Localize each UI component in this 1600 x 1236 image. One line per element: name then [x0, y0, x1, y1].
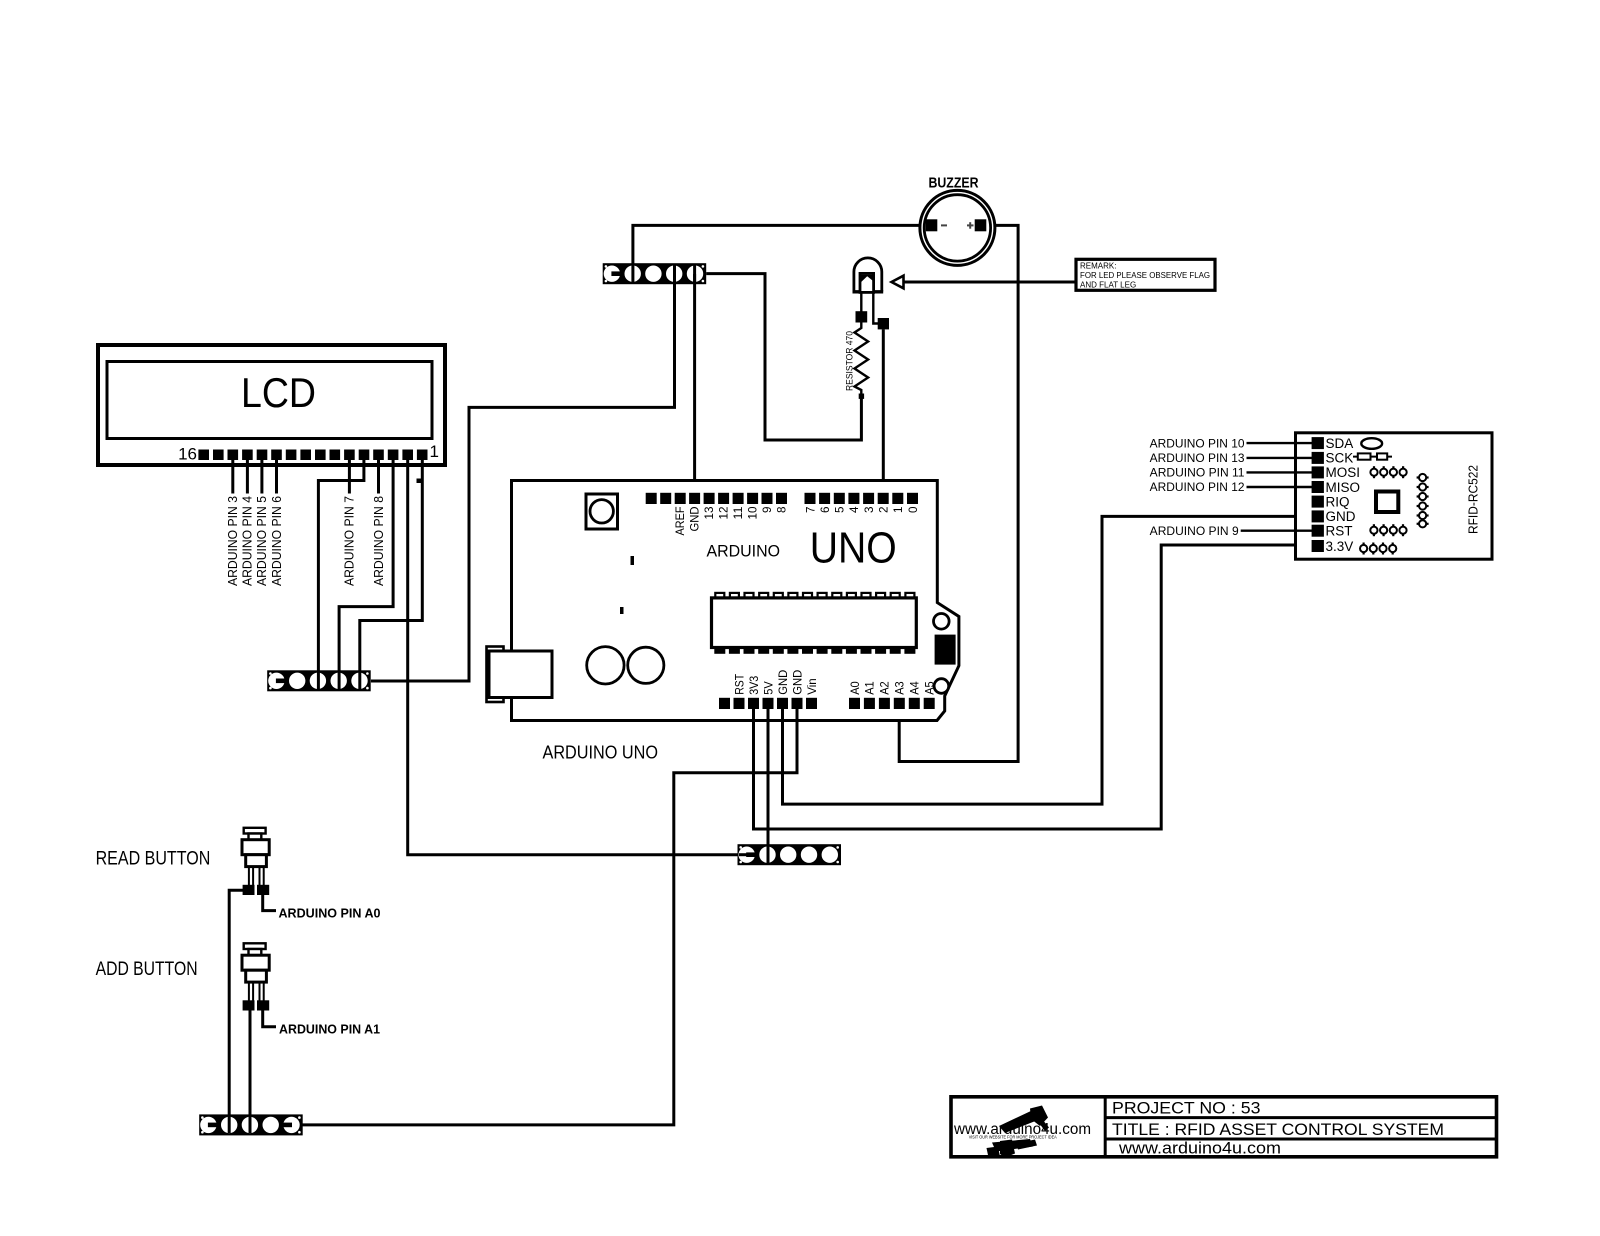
svg-text:A0: A0 — [850, 681, 862, 695]
wire READ button left leg to button header hole2 — [229, 890, 243, 1126]
label RESISTOR 470 (vertical) — [845, 331, 855, 391]
label ADD BUTTON — [96, 959, 198, 980]
connector J3 power header (5-hole header) — [738, 844, 842, 865]
title text PROJECT NO — [1112, 1100, 1261, 1118]
label Arduino power pin GND (vertical) — [778, 670, 790, 695]
label ARDUINO PIN A1 — [279, 1023, 380, 1037]
svg-text:Vin: Vin — [807, 678, 819, 695]
RFID caps column right — [1417, 474, 1429, 528]
ARDUINO text on board — [707, 542, 781, 561]
svg-text:ARDUINO PIN 5: ARDUINO PIN 5 — [255, 496, 269, 586]
label ARDUINO PIN 4 (vertical) — [241, 496, 255, 586]
LCD pin pads row pins 16..1 — [198, 450, 427, 461]
RFID pin pad 3.3V — [1312, 540, 1324, 552]
buzzer plus sign — [967, 222, 974, 229]
connector J1 LCD power header (5-hole header) — [267, 670, 371, 691]
svg-text:GND: GND — [1326, 509, 1356, 524]
LED cathode leg — [860, 292, 862, 312]
label ARDUINO PIN 3 (vertical) — [226, 496, 240, 586]
label ARDUINO PIN 5 (vertical) — [255, 496, 269, 586]
wire READ button right leg to label A0 — [263, 895, 276, 911]
LCD pin 16 number label — [178, 445, 197, 464]
wire segments through J4 holes — [229, 1116, 250, 1133]
logo tiny tagline — [969, 1135, 1057, 1140]
label ARDUINO PIN 7 (vertical) — [343, 496, 357, 586]
wire leader ARDUINO PIN 11 to RFID pin — [1247, 471, 1314, 473]
svg-text:10: 10 — [747, 507, 759, 520]
svg-text:5V: 5V — [763, 681, 775, 695]
svg-text:16: 16 — [178, 445, 197, 464]
Arduino analog header pads A0..A5 — [849, 698, 935, 709]
svg-text:A5: A5 — [925, 681, 937, 695]
wire LCD pin3 to LCD header hole4 — [339, 459, 393, 681]
RFID pin label RST — [1326, 524, 1353, 539]
board mount hole top right — [934, 614, 950, 630]
Arduino top header pads 7..0 — [805, 493, 919, 504]
RFID fuse pair — [1353, 453, 1392, 459]
title text www.arduino4u.com — [1118, 1138, 1281, 1157]
label ARDUINO PIN 9 — [1150, 526, 1239, 538]
svg-text:AREF: AREF — [675, 507, 687, 536]
svg-text:www.arduino4u.com: www.arduino4u.com — [1118, 1138, 1281, 1157]
label Arduino power pin GND (vertical) — [792, 670, 804, 695]
LED anode leg — [873, 292, 878, 324]
svg-text:ARDUINO PIN A1: ARDUINO PIN A1 — [279, 1023, 380, 1037]
svg-text:RST: RST — [734, 674, 746, 695]
LCD pin 1 number label — [430, 442, 439, 461]
svg-text:1: 1 — [893, 507, 905, 514]
svg-text:12: 12 — [718, 507, 730, 520]
svg-text:ARDUINO PIN 4: ARDUINO PIN 4 — [241, 496, 255, 586]
buzzer terminal pad plus — [975, 219, 987, 231]
svg-text:9: 9 — [762, 507, 774, 514]
buzzer BZ1 body (double circle) — [920, 190, 995, 265]
label Arduino pin A4 (vertical) — [910, 681, 922, 695]
LCD text label — [241, 369, 316, 416]
LED D1 dome body — [853, 258, 884, 292]
svg-text:LCD: LCD — [241, 369, 316, 416]
logo drill graphic lower part — [987, 1139, 1038, 1158]
wire leader ARDUINO PIN 10 to RFID pin — [1247, 442, 1314, 444]
buzzer minus sign — [941, 224, 947, 226]
title block row divider 1 — [1105, 1116, 1496, 1119]
svg-text:RESISTOR 470: RESISTOR 470 — [845, 331, 855, 391]
title block vertical divider — [1104, 1097, 1107, 1157]
title text TITLE RFID ASSET CONTROL SYSTEM — [1112, 1121, 1444, 1139]
wire buzzer minus to J2 hole2 — [633, 225, 927, 265]
label Arduino power pin Vin (vertical) — [807, 678, 819, 695]
wire stub LCD to label ARDUINO PIN 7 — [348, 459, 351, 494]
svg-text:SCK: SCK — [1326, 451, 1354, 466]
RFID caps row 2 — [1370, 524, 1406, 536]
svg-text:GND: GND — [778, 670, 790, 695]
wire ADD button right leg to label A1 — [263, 1011, 276, 1027]
label Arduino pin A1 (vertical) — [865, 681, 877, 695]
svg-text:REMARK:: REMARK: — [1080, 262, 1116, 271]
logo drill graphic upper part — [999, 1106, 1049, 1134]
svg-text:BUZZER: BUZZER — [929, 175, 979, 192]
svg-text:VISIT OUR WEBSITE FOR MORE PRO: VISIT OUR WEBSITE FOR MORE PROJECT IDEA — [969, 1135, 1057, 1140]
wire remark box to arrow — [904, 281, 1077, 284]
wire ADD button left leg to button header hole3 — [249, 1011, 252, 1127]
buzzer BZ1 label — [929, 175, 979, 192]
label ARDUINO PIN 6 (vertical) — [270, 496, 284, 586]
RFID crystal oval — [1361, 438, 1382, 449]
svg-text:3.3V: 3.3V — [1326, 539, 1354, 554]
label RFID-RC522 (vertical) — [1467, 465, 1481, 534]
label ARDUINO PIN 8 (vertical) — [372, 496, 386, 586]
wire segments through J1 holes — [318, 672, 359, 689]
RFID pin label SDA — [1326, 436, 1354, 451]
title block row divider 2 — [1105, 1138, 1496, 1141]
remark text line1 — [1080, 262, 1116, 271]
wire LCD pin5 to LCD header hole3 — [318, 459, 364, 681]
svg-text:ARDUINO PIN 6: ARDUINO PIN 6 — [270, 496, 284, 586]
wire leader ARDUINO PIN 12 to RFID pin — [1247, 486, 1314, 488]
label Arduino top pin GND (vertical) — [689, 507, 701, 532]
RFID-RC522 module board outline — [1296, 433, 1493, 559]
svg-text:GND: GND — [689, 507, 701, 532]
LCD display window inner rect — [107, 362, 432, 439]
RFID caps row 3 — [1360, 543, 1396, 555]
label Arduino power pin 5V (vertical) — [763, 681, 775, 695]
wire LCD pin1 to LCD header hole5 — [360, 459, 423, 681]
svg-text:ARDUINO PIN 3: ARDUINO PIN 3 — [226, 496, 240, 586]
svg-text:ARDUINO PIN 8: ARDUINO PIN 8 — [372, 496, 386, 586]
svg-text:7: 7 — [805, 507, 817, 514]
svg-text:ADD BUTTON: ADD BUTTON — [96, 959, 198, 980]
RFID pin pad RST — [1312, 525, 1324, 537]
wire leader ARDUINO PIN 13 to RFID pin — [1247, 457, 1314, 459]
svg-text:ARDUINO PIN 10: ARDUINO PIN 10 — [1150, 438, 1245, 450]
wire Arduino 5V to power header hole2 — [767, 707, 770, 856]
pushbutton SW1 READ — [242, 828, 269, 895]
label Arduino power pin RST (vertical) — [734, 674, 746, 695]
LCD module U-LCD outer body — [98, 345, 445, 465]
label Arduino pin A0 (vertical) — [850, 681, 862, 695]
label ARDUINO PIN A0 — [279, 907, 381, 921]
connector J2 buzzer/led header (5-hole header) — [603, 263, 707, 284]
wire LCD pin2 to power header hole1 (long bottom run) — [408, 459, 748, 855]
svg-text:ARDUINO PIN 7: ARDUINO PIN 7 — [343, 496, 357, 586]
label Arduino pin A3 (vertical) — [895, 681, 907, 695]
svg-text:1: 1 — [430, 442, 439, 461]
wire stub LCD to label ARDUINO PIN 4 — [246, 459, 249, 494]
svg-text:MISO: MISO — [1326, 480, 1361, 495]
label Arduino top pin 1 (vertical) — [893, 507, 905, 514]
label Arduino pin A2 (vertical) — [880, 681, 892, 695]
wire J2 right side to resistor bottom — [706, 274, 861, 440]
RFID pin label RIQ — [1326, 494, 1350, 509]
svg-text:GND: GND — [792, 670, 804, 695]
wire stub LCD to label ARDUINO PIN 8 — [377, 459, 380, 494]
svg-text:ARDUINO PIN A0: ARDUINO PIN A0 — [279, 907, 381, 921]
label READ BUTTON — [96, 849, 211, 870]
label Arduino pin A5 (vertical) — [925, 681, 937, 695]
svg-text:ARDUINO PIN 11: ARDUINO PIN 11 — [1150, 468, 1245, 480]
wire Arduino 3V3 to RFID 3.3V — [754, 545, 1314, 829]
label Arduino top pin 10 (vertical) — [747, 507, 759, 520]
svg-text:4: 4 — [849, 506, 861, 513]
svg-text:2: 2 — [879, 507, 891, 514]
label Arduino top pin 13 (vertical) — [704, 507, 716, 520]
RFID pin label GND — [1326, 509, 1356, 524]
remark text line3 — [1080, 281, 1136, 290]
wire segments through J3 holes — [739, 846, 768, 863]
capacitor circle C1 on board — [587, 647, 624, 684]
svg-text:ARDUINO PIN 9: ARDUINO PIN 9 — [1150, 526, 1239, 538]
remark text line2 — [1080, 271, 1210, 280]
pushbutton SW2 ADD — [242, 943, 269, 1010]
UNO large text on board — [810, 524, 897, 573]
RFID pin pad GND — [1312, 510, 1324, 522]
svg-text:3: 3 — [864, 507, 876, 514]
ARDUINO UNO caption under board — [543, 743, 659, 763]
svg-text:RST: RST — [1326, 524, 1353, 539]
svg-text:A1: A1 — [865, 681, 877, 695]
label Arduino top pin 8 (vertical) — [776, 507, 788, 514]
svg-text:3V3: 3V3 — [749, 676, 761, 695]
LED D1 inner rect with flag mark — [860, 273, 874, 292]
svg-text:13: 13 — [704, 507, 716, 520]
RFID caps row 1 — [1370, 466, 1406, 478]
board mount hole bottom right — [934, 679, 949, 694]
label Arduino top pin 2 (vertical) — [879, 507, 891, 514]
wire stub LCD to label ARDUINO PIN 5 — [260, 459, 263, 494]
label Arduino top pin 7 (vertical) — [805, 507, 817, 514]
wire Arduino GND to RFID GND — [783, 516, 1314, 804]
label Arduino top pin 3 (vertical) — [864, 507, 876, 514]
RFID IC chip square — [1376, 492, 1398, 513]
LED cathode pad — [856, 311, 868, 322]
title block outer frame — [951, 1097, 1497, 1157]
label Arduino top pin AREF (vertical) — [675, 507, 687, 536]
svg-text:0: 0 — [908, 507, 920, 514]
svg-text:ARDUINO PIN 13: ARDUINO PIN 13 — [1150, 453, 1245, 465]
svg-text:AND FLAT LEG: AND FLAT LEG — [1080, 281, 1136, 290]
small mark on board 2 — [620, 607, 624, 614]
svg-text:5: 5 — [835, 507, 847, 514]
label Arduino top pin 6 (vertical) — [820, 507, 832, 514]
remark note box — [1076, 259, 1215, 290]
IC U2 ATmega DIP-28 — [712, 593, 917, 653]
svg-text:6: 6 — [820, 507, 832, 514]
RFID pin label SCK — [1326, 451, 1354, 466]
connector J4 buttons header (5-hole header) — [199, 1114, 303, 1135]
label Arduino top pin 12 (vertical) — [718, 507, 730, 520]
svg-text:A4: A4 — [910, 681, 922, 695]
RFID pin pad MISO — [1312, 481, 1324, 493]
svg-text:ARDUINO: ARDUINO — [707, 542, 781, 561]
power jack black block right — [935, 635, 956, 665]
capacitor circle C2 on board — [628, 647, 664, 683]
Arduino top header pads AREF..8 — [646, 493, 787, 504]
RFID pin pad SCK — [1312, 452, 1324, 464]
svg-text:11: 11 — [733, 507, 745, 520]
svg-text:A2: A2 — [880, 681, 892, 695]
arrow pointing to LED — [892, 276, 904, 289]
wire buzzer plus to Arduino pin A3 — [899, 225, 1018, 761]
wire top header hole4 to LCD header right side — [371, 274, 675, 681]
wire Arduino GND2 to button header right side — [302, 707, 797, 1125]
svg-text:UNO: UNO — [810, 524, 897, 573]
RFID pin pad SDA — [1312, 437, 1324, 449]
Arduino UNO board outline — [512, 481, 959, 721]
svg-text:A3: A3 — [895, 681, 907, 695]
label Arduino power pin 3V3 (vertical) — [749, 676, 761, 695]
RFID pin pad RIQ — [1312, 496, 1324, 508]
resistor R1 bottom terminal dot — [859, 394, 864, 399]
svg-text:8: 8 — [776, 507, 788, 514]
svg-text:FOR LED PLEASE OBSERVE FLAG: FOR LED PLEASE OBSERVE FLAG — [1080, 271, 1210, 280]
svg-text:READ BUTTON: READ BUTTON — [96, 849, 211, 870]
svg-text:SDA: SDA — [1326, 436, 1354, 451]
wire leader ARDUINO PIN 9 to RFID pin — [1241, 530, 1313, 532]
Arduino power header pads RST..Vin — [719, 698, 817, 709]
svg-text:ARDUINO PIN 12: ARDUINO PIN 12 — [1150, 482, 1245, 494]
wire stub LCD to label ARDUINO PIN 3 — [231, 459, 234, 494]
label Arduino top pin 5 (vertical) — [835, 507, 847, 514]
label Arduino top pin 9 (vertical) — [762, 507, 774, 514]
svg-text:TITLE : RFID ASSET CONTROL SYS: TITLE : RFID ASSET CONTROL SYSTEM — [1112, 1121, 1444, 1139]
wire stub LCD to label ARDUINO PIN 6 — [275, 459, 278, 494]
label Arduino top pin 11 (vertical) — [733, 507, 745, 520]
LED anode pad — [878, 318, 889, 329]
USB connector on board — [487, 647, 553, 703]
buzzer terminal pad minus — [926, 219, 938, 231]
wire segments through J2 holes — [633, 265, 695, 282]
svg-text:PROJECT NO : 53: PROJECT NO : 53 — [1112, 1100, 1261, 1118]
Arduino reset button — [586, 494, 618, 529]
label ARDUINO PIN 10 — [1150, 438, 1245, 450]
resistor R1 470 zigzag — [855, 323, 869, 395]
junction dot near LCD pin1 wire — [417, 479, 422, 484]
svg-text:RFID-RC522: RFID-RC522 — [1467, 465, 1481, 534]
wire J2 hole5 to Arduino GND top pin — [693, 274, 696, 494]
RFID pin label MOSI — [1326, 465, 1361, 480]
label ARDUINO PIN 11 — [1150, 468, 1245, 480]
RFID pin pad MOSI — [1312, 466, 1324, 478]
label ARDUINO PIN 12 — [1150, 482, 1245, 494]
svg-text:MOSI: MOSI — [1326, 465, 1361, 480]
small mark on board — [631, 556, 635, 565]
logo www.arduino4u.com text — [953, 1121, 1091, 1138]
RFID pin label 3.3V — [1326, 539, 1354, 554]
label Arduino top pin 4 (vertical) — [849, 506, 861, 513]
wire LED anode to Arduino pin 2 — [882, 329, 885, 494]
label ARDUINO PIN 13 — [1150, 453, 1245, 465]
RFID pin label MISO — [1326, 480, 1361, 495]
svg-text:RIQ: RIQ — [1326, 494, 1350, 509]
label Arduino top pin 0 (vertical) — [908, 507, 920, 514]
svg-text:ARDUINO UNO: ARDUINO UNO — [543, 743, 659, 763]
